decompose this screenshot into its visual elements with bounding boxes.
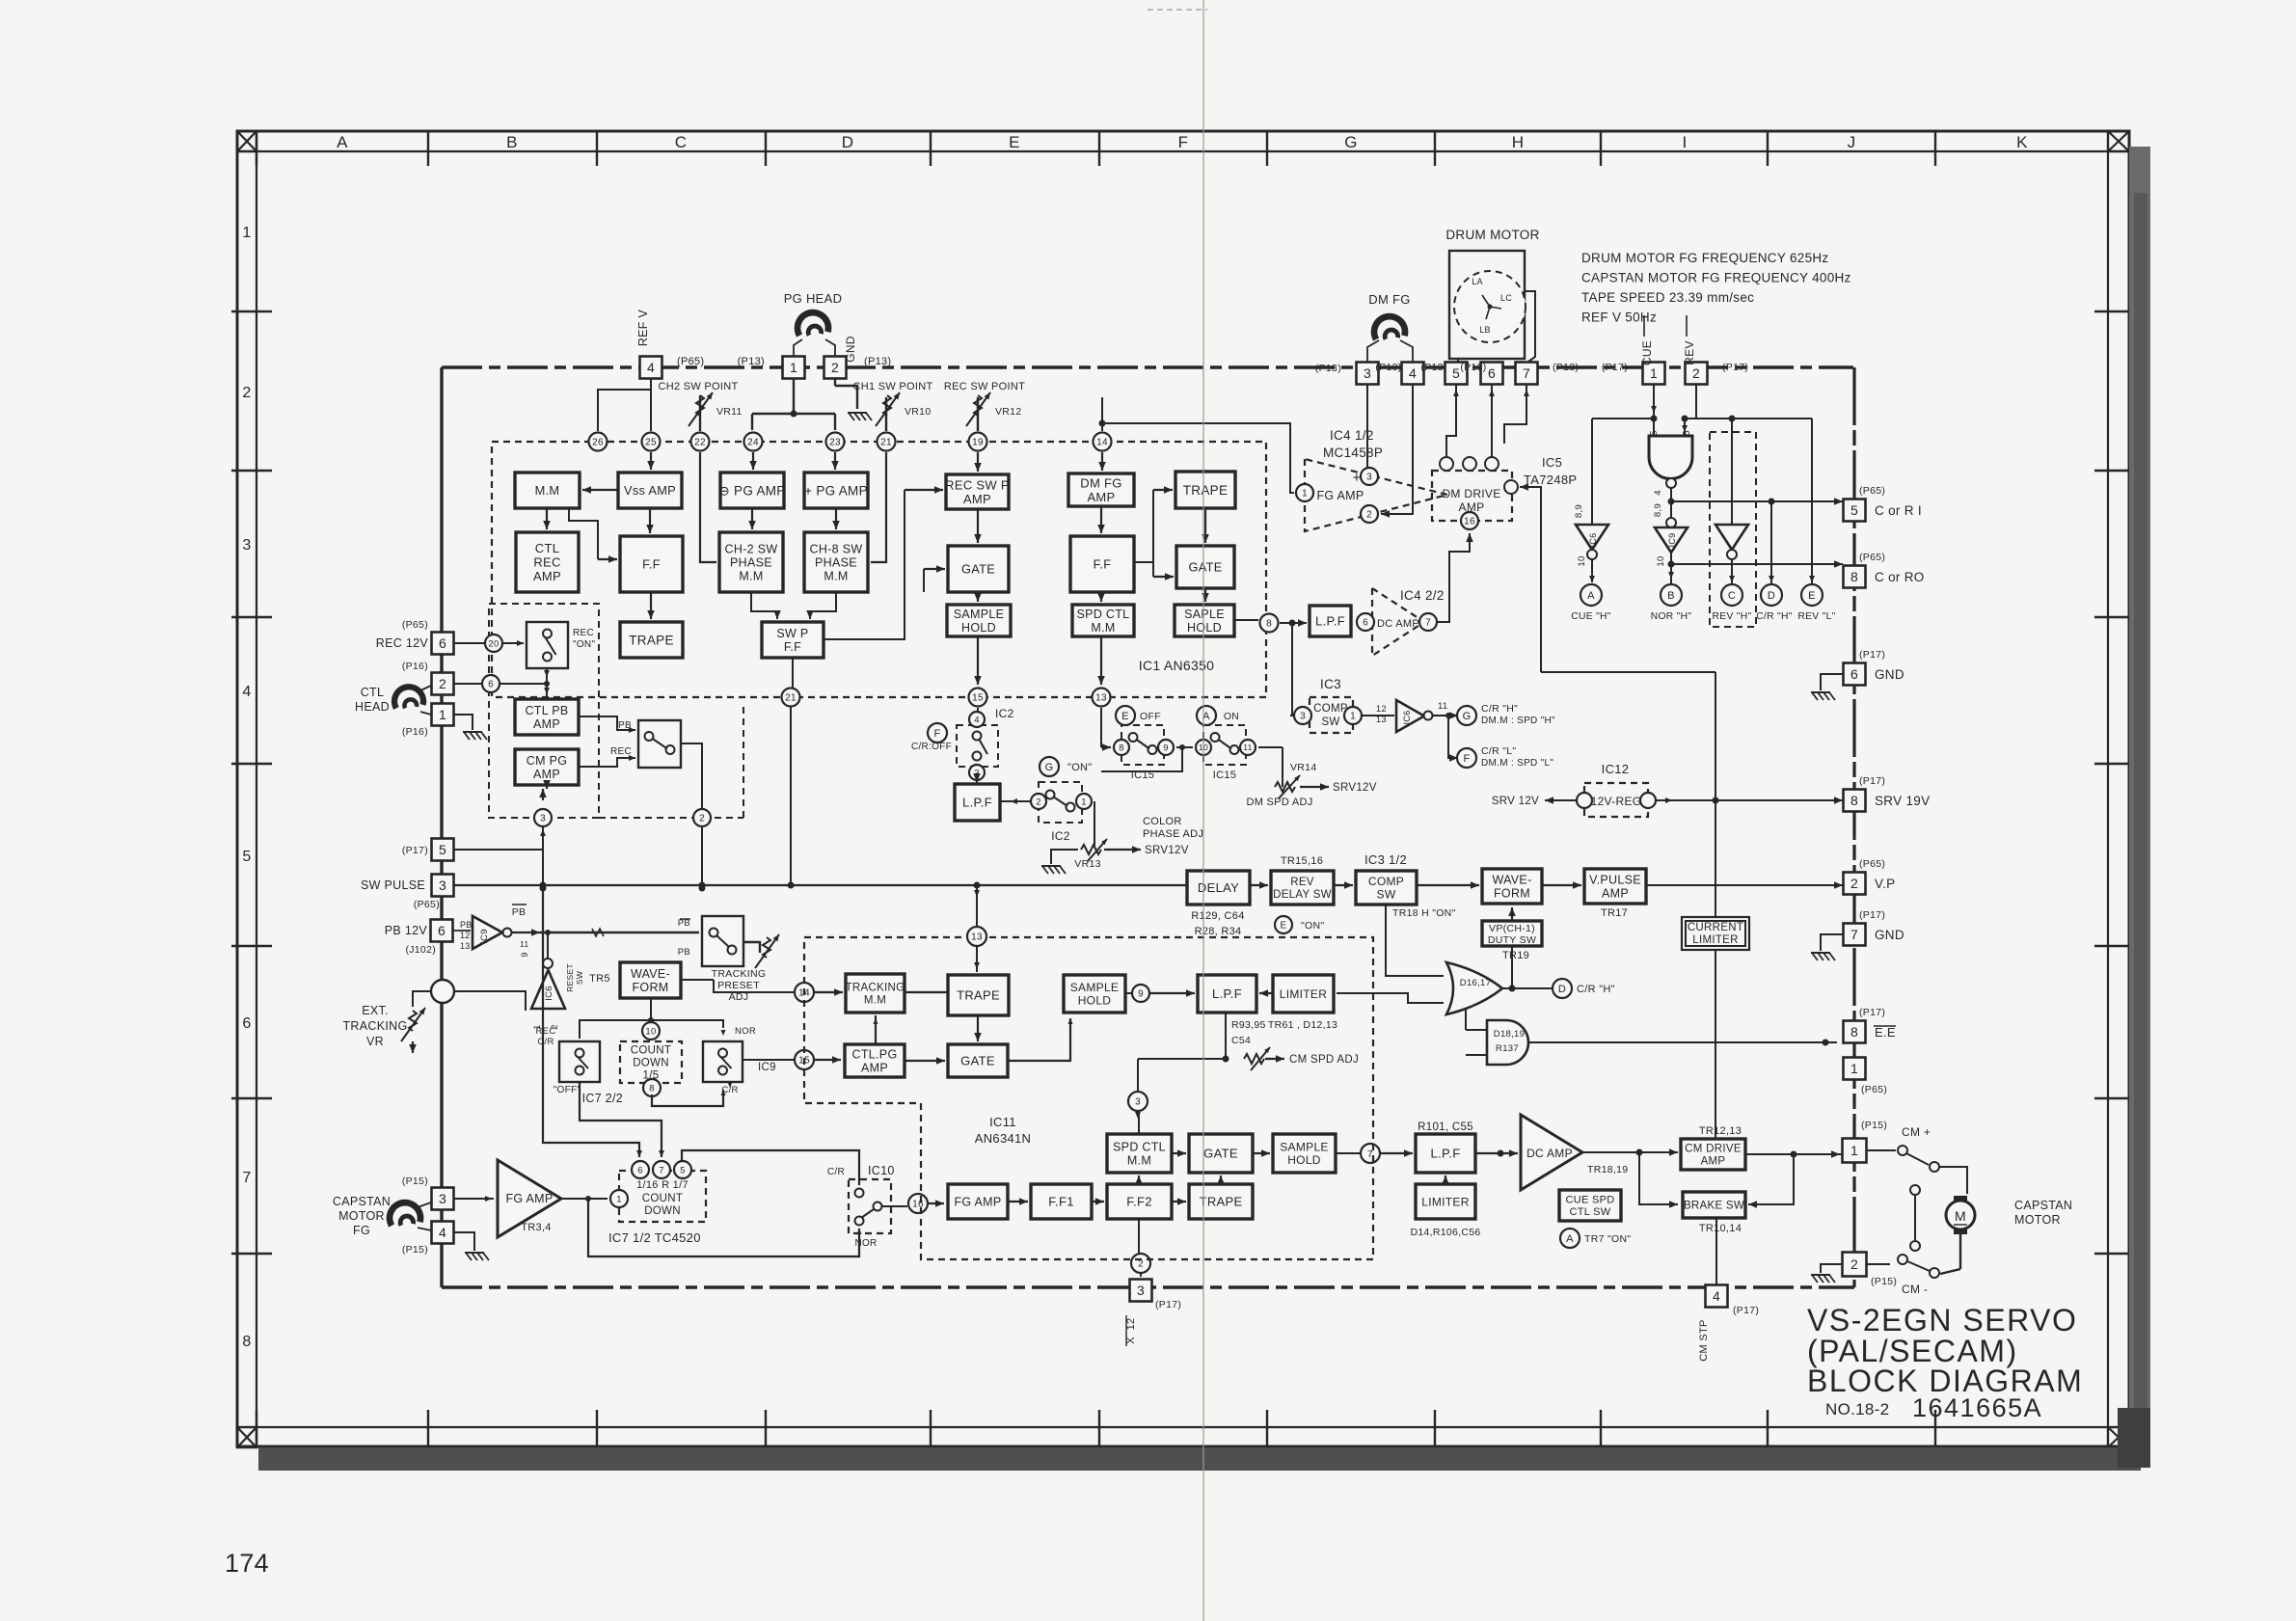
- svg-text:REC 12V: REC 12V: [376, 636, 429, 650]
- svg-text:WAVE-: WAVE-: [631, 967, 670, 981]
- svg-text:3: 3: [1364, 365, 1371, 381]
- svg-text:4: 4: [1409, 365, 1417, 381]
- svg-text:M: M: [1955, 1208, 1966, 1224]
- svg-text:C/R "H": C/R "H": [1756, 611, 1792, 622]
- svg-text:HEAD: HEAD: [355, 700, 390, 714]
- svg-text:L.P.F: L.P.F: [962, 796, 992, 810]
- svg-text:Vss AMP: Vss AMP: [624, 483, 676, 498]
- svg-text:1641665A: 1641665A: [1912, 1393, 2042, 1422]
- svg-text:AMP: AMP: [533, 717, 560, 731]
- svg-text:1: 1: [616, 1194, 622, 1204]
- svg-text:SW: SW: [575, 971, 584, 985]
- svg-text:16: 16: [1464, 517, 1475, 527]
- svg-text:REF V: REF V: [636, 309, 650, 346]
- svg-text:8: 8: [242, 1334, 251, 1350]
- svg-text:TA7248P: TA7248P: [1524, 473, 1577, 487]
- svg-text:A: A: [1587, 590, 1595, 602]
- svg-text:1: 1: [1302, 489, 1308, 500]
- svg-text:SW: SW: [1321, 716, 1339, 728]
- svg-text:8: 8: [1850, 569, 1858, 584]
- svg-text:IC5: IC5: [1542, 455, 1562, 470]
- svg-text:IC10: IC10: [868, 1164, 895, 1177]
- svg-text:DM.M : SPD "L": DM.M : SPD "L": [1481, 758, 1553, 769]
- svg-text:REF V 50Hz: REF V 50Hz: [1581, 311, 1657, 325]
- svg-text:F: F: [1463, 753, 1470, 765]
- svg-text:V.P: V.P: [1875, 877, 1895, 891]
- svg-text:CH-8 SW: CH-8 SW: [810, 543, 863, 556]
- svg-text:G: G: [1344, 133, 1358, 151]
- svg-text:DUTY SW: DUTY SW: [1488, 934, 1536, 946]
- svg-text:(P65): (P65): [1861, 1084, 1887, 1095]
- svg-text:C/R "H": C/R "H": [1577, 984, 1615, 995]
- svg-text:13: 13: [460, 941, 471, 951]
- svg-text:M.M: M.M: [739, 570, 763, 583]
- svg-text:REC SW POINT: REC SW POINT: [944, 381, 1025, 392]
- svg-text:COLOR: COLOR: [1143, 816, 1182, 827]
- svg-text:3: 3: [439, 878, 446, 893]
- svg-text:CM +: CM +: [1902, 1125, 1931, 1139]
- svg-text:PB: PB: [512, 906, 527, 918]
- svg-text:CM DRIVE: CM DRIVE: [1685, 1144, 1742, 1155]
- svg-text:NOR "H": NOR "H": [1651, 611, 1692, 622]
- svg-text:12: 12: [1376, 704, 1387, 715]
- svg-text:8,9: 8,9: [1653, 503, 1663, 517]
- svg-text:NOR: NOR: [735, 1026, 756, 1037]
- svg-text:SW PULSE: SW PULSE: [361, 878, 425, 892]
- svg-text:REC: REC: [536, 1026, 556, 1037]
- svg-text:(P17): (P17): [1155, 1299, 1181, 1310]
- svg-text:LIMITER: LIMITER: [1280, 987, 1327, 1001]
- svg-text:9: 9: [1163, 743, 1169, 753]
- svg-text:GND: GND: [1875, 928, 1904, 942]
- svg-text:AMP: AMP: [1701, 1156, 1726, 1168]
- svg-text:PRESET: PRESET: [717, 980, 760, 991]
- svg-text:FG AMP: FG AMP: [1316, 489, 1364, 502]
- svg-text:3: 3: [1366, 473, 1372, 483]
- svg-text:SPD CTL: SPD CTL: [1113, 1141, 1166, 1154]
- svg-text:F.F: F.F: [642, 557, 661, 572]
- svg-text:(P16): (P16): [402, 661, 428, 672]
- svg-text:(P15): (P15): [1861, 1120, 1887, 1131]
- svg-text:2: 2: [1850, 1256, 1858, 1272]
- svg-text:WAVE-: WAVE-: [1492, 874, 1531, 887]
- svg-text:(P65): (P65): [414, 899, 440, 910]
- svg-text:TR18,19: TR18,19: [1587, 1164, 1628, 1175]
- svg-text:"ON": "ON": [1301, 920, 1324, 932]
- svg-text:6: 6: [637, 1165, 643, 1175]
- svg-text:6: 6: [1850, 666, 1858, 682]
- svg-text:"ON": "ON": [1067, 762, 1093, 773]
- svg-text:10: 10: [645, 1026, 656, 1037]
- svg-text:TRAPE: TRAPE: [957, 988, 1000, 1003]
- svg-text:C/R "H": C/R "H": [1481, 703, 1518, 715]
- svg-text:1: 1: [790, 360, 797, 375]
- svg-text:CAPSTAN: CAPSTAN: [333, 1195, 391, 1208]
- svg-text:IC4 2/2: IC4 2/2: [1400, 588, 1445, 603]
- svg-text:8: 8: [1119, 743, 1124, 753]
- svg-text:8: 8: [1850, 793, 1858, 808]
- svg-text:7: 7: [659, 1165, 664, 1175]
- svg-text:DC AMP: DC AMP: [1377, 618, 1419, 630]
- svg-text:GND: GND: [1875, 667, 1904, 682]
- svg-text:CAPSTAN MOTOR FG FREQUENCY 4: CAPSTAN MOTOR FG FREQUENCY 400Hz: [1581, 271, 1851, 285]
- svg-text:VR13: VR13: [1074, 858, 1100, 870]
- svg-text:SAPLE: SAPLE: [1184, 608, 1225, 621]
- svg-text:GATE: GATE: [1188, 560, 1222, 575]
- svg-text:(P17): (P17): [1859, 649, 1885, 661]
- svg-text:2: 2: [699, 814, 705, 824]
- svg-text:F.F: F.F: [1094, 557, 1112, 572]
- svg-text:(P13): (P13): [1375, 362, 1401, 373]
- svg-text:CM SPD ADJ: CM SPD ADJ: [1289, 1054, 1359, 1066]
- svg-text:PB 12V: PB 12V: [385, 924, 428, 937]
- svg-text:SW: SW: [1377, 888, 1396, 902]
- svg-text:12: 12: [460, 931, 471, 940]
- svg-text:H: H: [1512, 133, 1525, 151]
- svg-text:CM STP: CM STP: [1698, 1319, 1710, 1361]
- svg-text:3: 3: [242, 537, 251, 554]
- svg-text:HOLD: HOLD: [1078, 994, 1112, 1008]
- svg-text:DRUM MOTOR: DRUM MOTOR: [1445, 228, 1539, 242]
- svg-text:IC9: IC9: [1667, 533, 1677, 548]
- svg-text:L.P.F: L.P.F: [1431, 1147, 1461, 1161]
- svg-text:DC AMP: DC AMP: [1526, 1147, 1573, 1160]
- svg-text:TR17: TR17: [1601, 907, 1628, 919]
- svg-text:CTL.PG: CTL.PG: [852, 1048, 898, 1062]
- svg-text:6: 6: [1488, 365, 1496, 381]
- svg-text:MOTOR: MOTOR: [338, 1209, 385, 1223]
- svg-text:PB: PB: [678, 947, 690, 958]
- svg-text:TAPE SPEED 23.39 mm/sec: TAPE SPEED 23.39 mm/sec: [1581, 290, 1754, 305]
- svg-text:8: 8: [1850, 1024, 1858, 1040]
- svg-text:(P17): (P17): [1859, 909, 1885, 921]
- svg-text:R28, R34: R28, R34: [1195, 926, 1242, 937]
- svg-text:G: G: [1463, 711, 1472, 722]
- svg-text:LB: LB: [1479, 325, 1491, 335]
- svg-text:(P17): (P17): [402, 845, 428, 856]
- svg-text:AMP: AMP: [963, 492, 991, 506]
- svg-text:CTL: CTL: [535, 541, 559, 555]
- svg-text:DM SPD ADJ: DM SPD ADJ: [1246, 797, 1312, 808]
- svg-text:CUE: CUE: [1640, 340, 1654, 365]
- svg-text:13: 13: [1095, 693, 1107, 704]
- svg-text:10: 10: [1577, 555, 1587, 566]
- svg-text:RESET: RESET: [565, 963, 575, 992]
- svg-text:1: 1: [242, 225, 251, 241]
- svg-text:SPD CTL: SPD CTL: [1077, 608, 1130, 621]
- svg-text:AMP: AMP: [861, 1062, 888, 1075]
- svg-text:(P17): (P17): [1733, 1305, 1759, 1316]
- svg-text:F.F: F.F: [784, 640, 801, 654]
- svg-text:REC: REC: [533, 555, 560, 570]
- svg-text:8: 8: [649, 1083, 655, 1094]
- svg-text:SAMPLE: SAMPLE: [1070, 981, 1120, 994]
- svg-text:4: 4: [439, 1225, 446, 1240]
- svg-text:BRAKE SW: BRAKE SW: [1684, 1201, 1744, 1212]
- svg-text:D14,R106,C56: D14,R106,C56: [1410, 1227, 1480, 1238]
- svg-text:23: 23: [829, 438, 841, 448]
- svg-text:AMP: AMP: [1602, 887, 1629, 901]
- svg-text:EXT.: EXT.: [362, 1004, 389, 1017]
- svg-text:14: 14: [1096, 438, 1108, 448]
- svg-text:"ON": "ON": [573, 639, 595, 650]
- svg-text:8,9: 8,9: [1574, 504, 1584, 518]
- svg-text:FG: FG: [353, 1224, 370, 1237]
- svg-text:I: I: [1682, 133, 1687, 151]
- svg-text:CM PG: CM PG: [527, 754, 567, 768]
- svg-text:SAMPLE: SAMPLE: [954, 608, 1005, 621]
- svg-text:13: 13: [971, 932, 983, 943]
- svg-text:REC: REC: [610, 746, 632, 757]
- svg-text:IC6: IC6: [1402, 711, 1412, 725]
- svg-text:3: 3: [540, 814, 546, 824]
- svg-text:4: 4: [647, 360, 655, 375]
- svg-text:(J102): (J102): [405, 944, 436, 956]
- svg-text:3: 3: [439, 1191, 446, 1206]
- svg-text:2: 2: [1138, 1259, 1144, 1270]
- svg-text:IC2: IC2: [1051, 829, 1070, 843]
- svg-text:TR7 "ON": TR7 "ON": [1584, 1233, 1631, 1245]
- svg-text:E: E: [1121, 711, 1129, 722]
- svg-text:DELAY SW: DELAY SW: [1273, 889, 1332, 901]
- svg-text:CM -: CM -: [1902, 1283, 1928, 1296]
- svg-text:CUE SPD: CUE SPD: [1566, 1195, 1615, 1206]
- svg-text:C/R "L": C/R "L": [1481, 745, 1516, 757]
- svg-text:2: 2: [831, 360, 839, 375]
- svg-text:B: B: [1667, 590, 1675, 602]
- svg-text:AMP: AMP: [533, 569, 561, 583]
- svg-text:SRV 12V: SRV 12V: [1492, 796, 1539, 807]
- svg-text:6: 6: [242, 1015, 251, 1032]
- svg-text:(P15): (P15): [402, 1244, 428, 1256]
- svg-text:L.P.F: L.P.F: [1315, 614, 1345, 629]
- svg-text:IC2: IC2: [995, 707, 1014, 720]
- svg-text:CH1 SW POINT: CH1 SW POINT: [852, 381, 932, 392]
- svg-text:IC11: IC11: [989, 1115, 1016, 1129]
- svg-text:GATE: GATE: [1203, 1147, 1238, 1161]
- svg-text:TR10,14: TR10,14: [1699, 1223, 1742, 1234]
- svg-text:DM FG: DM FG: [1080, 475, 1121, 490]
- svg-text:7: 7: [1523, 365, 1530, 381]
- svg-text:FORM: FORM: [633, 981, 669, 994]
- svg-text:TR61 , D12,13: TR61 , D12,13: [1268, 1019, 1337, 1031]
- svg-text:R93,95: R93,95: [1231, 1019, 1266, 1031]
- svg-text:CTL PB: CTL PB: [525, 704, 568, 717]
- svg-text:C: C: [675, 133, 688, 151]
- svg-text:E.E: E.E: [1875, 1025, 1896, 1040]
- svg-text:5: 5: [680, 1165, 686, 1175]
- svg-text:M.M: M.M: [1127, 1154, 1151, 1168]
- svg-text:4: 4: [974, 715, 980, 725]
- svg-text:DRUM MOTOR FG FREQUENCY 625H: DRUM MOTOR FG FREQUENCY 625Hz: [1581, 251, 1828, 265]
- svg-text:REC SW P: REC SW P: [945, 477, 1010, 492]
- svg-text:VP(CH-1): VP(CH-1): [1489, 923, 1535, 934]
- svg-text:SAMPLE: SAMPLE: [1280, 1141, 1329, 1154]
- svg-text:PB: PB: [460, 920, 473, 930]
- svg-text:VS-2EGN SERVO: VS-2EGN SERVO: [1807, 1303, 2077, 1337]
- svg-text:1: 1: [1850, 1143, 1858, 1158]
- svg-text:(P13): (P13): [864, 356, 891, 367]
- svg-text:LIMITER: LIMITER: [1421, 1195, 1469, 1208]
- svg-text:E: E: [1009, 133, 1020, 151]
- svg-text:(P13): (P13): [1460, 362, 1486, 373]
- svg-text:1: 1: [1650, 365, 1658, 381]
- svg-text:AN6341N: AN6341N: [975, 1131, 1031, 1146]
- svg-text:E: E: [1808, 590, 1816, 602]
- svg-text:TRACKING: TRACKING: [712, 968, 767, 980]
- svg-text:IC7 1/2 TC4520: IC7 1/2 TC4520: [608, 1230, 701, 1245]
- svg-text:HOLD: HOLD: [1187, 621, 1222, 635]
- svg-text:GND: GND: [844, 336, 857, 363]
- svg-text:LA: LA: [1472, 277, 1483, 286]
- svg-text:F.F2: F.F2: [1126, 1195, 1151, 1209]
- svg-text:11: 11: [520, 939, 528, 949]
- svg-text:2: 2: [1850, 876, 1858, 891]
- svg-text:CH-2 SW: CH-2 SW: [725, 543, 778, 556]
- svg-text:COMP: COMP: [1368, 875, 1404, 888]
- svg-text:FG AMP: FG AMP: [954, 1196, 1001, 1209]
- svg-text:7: 7: [1850, 927, 1858, 942]
- svg-text:LIMITER: LIMITER: [1692, 934, 1738, 946]
- svg-text:PHASE: PHASE: [730, 556, 772, 570]
- svg-text:D: D: [1768, 590, 1775, 602]
- svg-text:F: F: [933, 728, 940, 740]
- svg-text:11: 11: [1438, 701, 1447, 712]
- svg-text:(P65): (P65): [1859, 552, 1885, 563]
- svg-text:R137: R137: [1496, 1043, 1519, 1054]
- svg-text:TR15,16: TR15,16: [1281, 855, 1323, 867]
- svg-text:REV "H": REV "H": [1713, 611, 1752, 622]
- svg-text:LC: LC: [1500, 293, 1512, 303]
- svg-text:J: J: [1848, 133, 1856, 151]
- svg-text:PG HEAD: PG HEAD: [784, 291, 843, 306]
- svg-text:2: 2: [1692, 365, 1700, 381]
- svg-text:REC: REC: [573, 628, 594, 638]
- svg-text:2: 2: [242, 385, 251, 401]
- svg-text:11: 11: [1243, 743, 1252, 752]
- svg-text:(P17): (P17): [1859, 775, 1885, 787]
- svg-text:D: D: [1558, 984, 1566, 995]
- svg-text:L.P.F: L.P.F: [1212, 986, 1242, 1001]
- svg-text:C54: C54: [1231, 1035, 1251, 1046]
- svg-text:22: 22: [694, 438, 706, 448]
- svg-text:CTL SW: CTL SW: [1570, 1206, 1611, 1218]
- svg-text:1: 1: [1081, 797, 1087, 807]
- svg-text:CUE "H": CUE "H": [1571, 611, 1610, 622]
- svg-text:REV: REV: [1290, 877, 1314, 888]
- svg-text:R101, C55: R101, C55: [1418, 1121, 1473, 1133]
- svg-text:1: 1: [439, 707, 446, 722]
- svg-text:2: 2: [439, 676, 446, 691]
- svg-text:R129, C64: R129, C64: [1191, 910, 1244, 922]
- svg-text:10: 10: [1656, 555, 1666, 566]
- svg-text:IC12: IC12: [1602, 762, 1630, 776]
- svg-text:SRV 19V: SRV 19V: [1875, 794, 1930, 808]
- svg-text:PHASE ADJ: PHASE ADJ: [1143, 828, 1203, 840]
- svg-text:TR12,13: TR12,13: [1699, 1125, 1742, 1137]
- svg-text:IC3 1/2: IC3 1/2: [1364, 852, 1407, 867]
- svg-text:4: 4: [1653, 490, 1663, 496]
- svg-text:TR3,4: TR3,4: [521, 1222, 551, 1233]
- svg-text:D18,19: D18,19: [1494, 1029, 1525, 1040]
- svg-text:(P13): (P13): [1553, 362, 1579, 373]
- svg-text:(P15): (P15): [1871, 1276, 1897, 1287]
- svg-text:IC6: IC6: [1588, 533, 1598, 548]
- svg-text:15: 15: [972, 693, 984, 704]
- svg-text:IC15: IC15: [1213, 770, 1236, 781]
- svg-text:D: D: [842, 133, 854, 151]
- svg-text:(P13): (P13): [1420, 362, 1446, 373]
- svg-text:(P65): (P65): [402, 619, 428, 631]
- svg-text:C or R I: C or R I: [1875, 503, 1922, 518]
- svg-text:(P17): (P17): [1859, 1007, 1885, 1018]
- svg-text:(P13): (P13): [1315, 363, 1341, 374]
- svg-text:VR: VR: [366, 1035, 384, 1048]
- svg-text:NO.18-2: NO.18-2: [1825, 1400, 1889, 1418]
- svg-text:IC6: IC6: [544, 986, 554, 1001]
- svg-text:19: 19: [972, 438, 984, 448]
- svg-text:5: 5: [1850, 502, 1858, 518]
- svg-text:(P17): (P17): [1722, 362, 1748, 373]
- svg-text:+ PG AMP: + PG AMP: [804, 483, 868, 498]
- svg-text:5: 5: [1452, 365, 1460, 381]
- svg-text:IC9: IC9: [479, 929, 490, 944]
- svg-text:TRACKING: TRACKING: [846, 983, 905, 994]
- svg-text:B: B: [506, 133, 518, 151]
- svg-text:ON: ON: [1224, 711, 1239, 722]
- svg-text:GATE: GATE: [961, 562, 995, 577]
- svg-text:C/R: C/R: [537, 1037, 554, 1047]
- svg-text:VR10: VR10: [905, 406, 931, 418]
- svg-text:5: 5: [242, 849, 251, 865]
- svg-text:6: 6: [438, 923, 446, 938]
- svg-text:1/16 R 1/7: 1/16 R 1/7: [636, 1179, 689, 1191]
- svg-text:COUNT: COUNT: [631, 1045, 671, 1057]
- svg-text:(P65): (P65): [1859, 858, 1885, 870]
- svg-text:DM.M : SPD "H": DM.M : SPD "H": [1481, 716, 1555, 726]
- svg-text:DOWN: DOWN: [644, 1205, 681, 1217]
- svg-text:COMP: COMP: [1313, 703, 1348, 715]
- svg-text:16: 16: [912, 1200, 924, 1210]
- svg-text:CURRENT: CURRENT: [1688, 922, 1743, 933]
- svg-text:DM DRIVE: DM DRIVE: [1442, 487, 1500, 500]
- svg-text:21: 21: [880, 438, 892, 448]
- svg-text:VR11: VR11: [716, 406, 743, 418]
- svg-text:TRAPE: TRAPE: [1200, 1195, 1243, 1209]
- svg-text:A: A: [1566, 1233, 1574, 1245]
- svg-text:TR19: TR19: [1502, 950, 1529, 961]
- svg-text:21: 21: [785, 693, 797, 704]
- svg-text:G: G: [1045, 762, 1054, 773]
- svg-text:FORM: FORM: [1494, 887, 1530, 901]
- svg-text:MC1458P: MC1458P: [1323, 446, 1383, 460]
- svg-text:6: 6: [488, 680, 494, 690]
- svg-text:M.M: M.M: [535, 483, 560, 498]
- svg-text:M.M: M.M: [1091, 621, 1115, 635]
- svg-text:C/R:OFF: C/R:OFF: [911, 742, 952, 752]
- svg-text:V.PULSE: V.PULSE: [1589, 874, 1641, 887]
- svg-text:A: A: [337, 133, 348, 151]
- svg-text:TRAPE: TRAPE: [629, 633, 674, 647]
- svg-text:TR5: TR5: [589, 973, 610, 985]
- svg-text:REV: REV: [1683, 340, 1696, 365]
- svg-text:TRAPE: TRAPE: [1183, 483, 1229, 498]
- svg-text:3: 3: [1137, 1283, 1145, 1298]
- svg-text:26: 26: [592, 438, 604, 448]
- svg-text:6: 6: [1682, 430, 1692, 436]
- svg-text:AMP: AMP: [533, 768, 560, 781]
- svg-text:VR14: VR14: [1290, 762, 1316, 773]
